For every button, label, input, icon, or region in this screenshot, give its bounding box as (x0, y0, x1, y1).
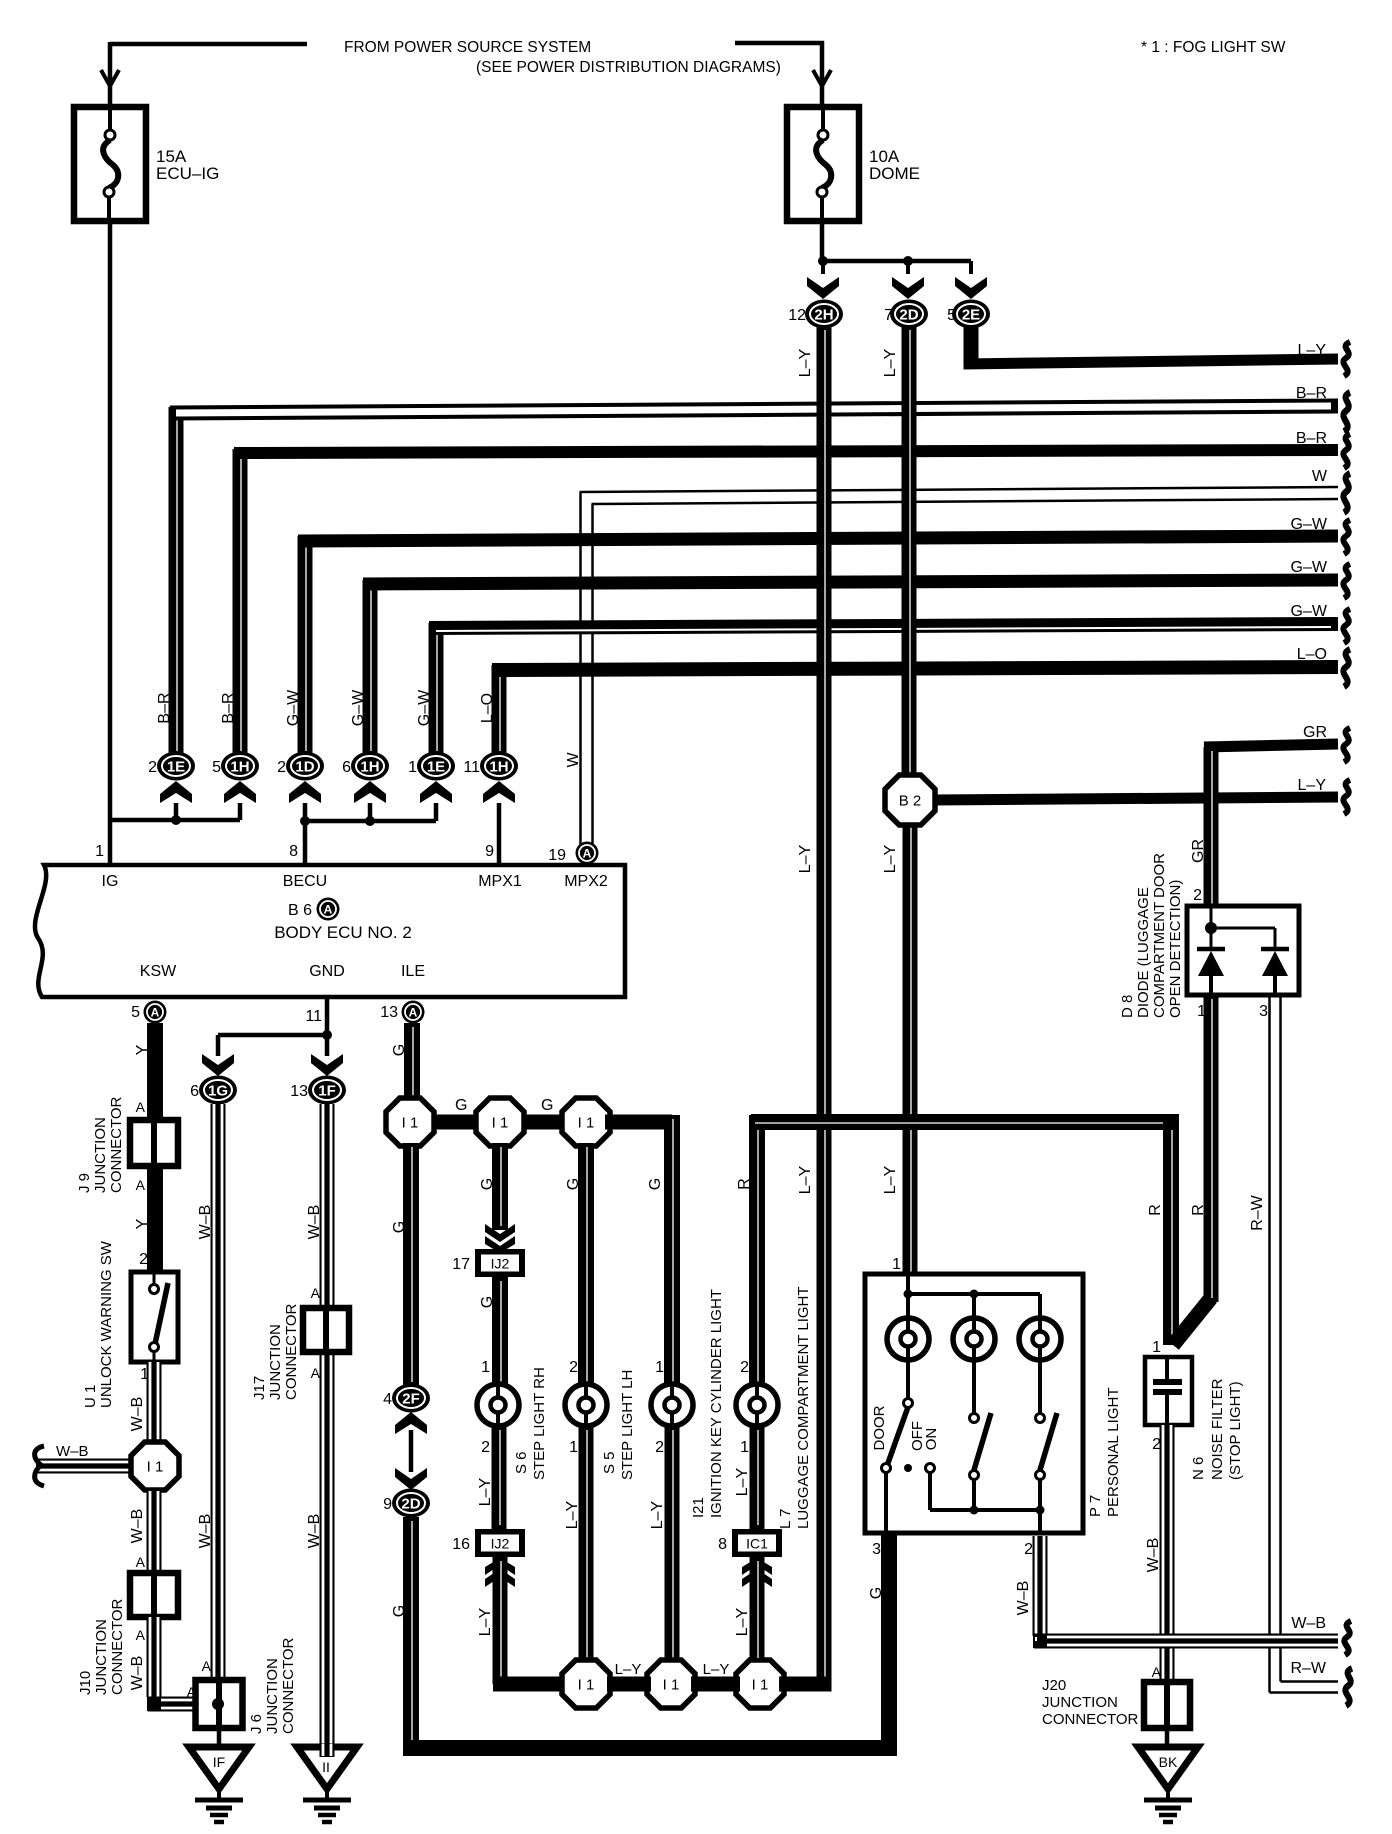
continuation W (1343, 473, 1350, 512)
svg-text:G: G (391, 1605, 408, 1617)
wire L-Y: IC1 to splice (750, 1557, 765, 1662)
svg-text:N 6: N 6 (1190, 1457, 1207, 1480)
ground IF (189, 1747, 249, 1822)
wire L-Y: corner to splice I1 (493, 1677, 566, 1692)
svg-text:1: 1 (408, 759, 417, 776)
svg-text:3: 3 (872, 1541, 881, 1558)
svg-text:19: 19 (548, 847, 566, 864)
svg-text:A: A (136, 1177, 146, 1193)
lamp personal light 3 (1019, 1318, 1061, 1360)
svg-text:L–Y: L–Y (615, 1661, 642, 1678)
wire: on contact to rail (928, 1472, 932, 1510)
wire: power feed to fuse DOME (735, 41, 824, 46)
connector 13 1F (308, 1076, 346, 1105)
wire G: splice to step light LH (578, 1143, 594, 1386)
connector A at KSW (144, 1001, 167, 1024)
wire: J6 to ground IF (217, 1728, 222, 1749)
wire G: 2D down to bottom run (403, 1517, 419, 1748)
junction (300, 816, 310, 826)
wire: DOME fuse output (820, 194, 825, 262)
svg-text:9: 9 (485, 843, 494, 860)
arrow into fuse ECU-IG (101, 70, 119, 86)
svg-text:L–O: L–O (1297, 646, 1327, 663)
svg-text:2: 2 (569, 1359, 578, 1376)
lamp S6 step light RH (477, 1384, 519, 1426)
arrow into junction 17 IJ2 (485, 1224, 515, 1253)
svg-text:5: 5 (131, 1004, 140, 1021)
svg-text:2: 2 (148, 759, 157, 776)
splice I1 (562, 1660, 610, 1708)
svg-text:11: 11 (463, 759, 480, 776)
svg-text:LUGGAGE COMPARTMENT LIGHT: LUGGAGE COMPARTMENT LIGHT (795, 1286, 812, 1529)
corner patch (147, 1697, 161, 1711)
connector 12 2H (805, 300, 843, 329)
wire W-B into ground II (320, 1744, 335, 1757)
wire W-B: I1 to J10 (147, 1491, 162, 1576)
svg-text:2F: 2F (402, 1391, 420, 1408)
svg-text:NOISE FILTER: NOISE FILTER (1209, 1378, 1226, 1480)
svg-text:L–Y: L–Y (797, 1165, 814, 1194)
svg-text:STEP LIGHT RH: STEP LIGHT RH (531, 1367, 548, 1480)
connector 1 1E (417, 752, 455, 781)
svg-text:ON: ON (923, 1428, 940, 1451)
wire W-B: noise filter to J20 (1160, 1425, 1175, 1684)
svg-text:ILE: ILE (401, 963, 425, 980)
svg-text:Y: Y (134, 1218, 151, 1229)
svg-text:A: A (136, 1554, 146, 1570)
svg-text:W–B: W–B (129, 1509, 146, 1544)
svg-text:A: A (136, 1099, 146, 1115)
continuation W-B (1344, 1621, 1351, 1655)
continuation G-W (1343, 520, 1350, 554)
connector 2 1D (286, 752, 324, 781)
wire: dome fuse branch line (823, 259, 971, 264)
wire W (hollow) from MPX2 to right edge (579, 492, 582, 848)
lamp S5 step light LH (565, 1384, 607, 1426)
svg-text:G–W: G–W (1291, 516, 1328, 533)
svg-text:I21: I21 (690, 1497, 707, 1518)
wire Y/A: KSW to unlock warning sw (147, 1023, 163, 1274)
svg-text:IC1: IC1 (746, 1536, 768, 1552)
svg-text:G: G (541, 1097, 553, 1114)
svg-text:1: 1 (740, 1439, 749, 1456)
svg-text:CONNECTOR: CONNECTOR (283, 1303, 300, 1400)
svg-text:16: 16 (452, 1536, 470, 1553)
svg-text:G: G (479, 1296, 496, 1308)
svg-text:L–Y: L–Y (797, 348, 814, 377)
junction connector 17 IJ2 (475, 1249, 525, 1277)
junction connector J10 (130, 1573, 178, 1617)
wire: door contact to pin 3 (884, 1472, 888, 1531)
junction (171, 815, 181, 825)
arrow into fuse DOME (813, 70, 831, 86)
svg-text:1E: 1E (167, 759, 185, 776)
svg-text:FROM POWER SOURCE SYSTEM: FROM POWER SOURCE SYSTEM (344, 39, 591, 56)
wire L-Y: splice link (607, 1677, 651, 1692)
fuse 15A ECU-IG (74, 107, 146, 221)
junction (365, 816, 375, 826)
continuation B-R (1343, 434, 1350, 468)
svg-text:G–W: G–W (1291, 603, 1328, 620)
wire L-Y: luggage light to IC1 (750, 1426, 765, 1529)
arrow into connector 4 2F (395, 1412, 427, 1434)
wire: 2F to 2D (409, 1430, 414, 1472)
lamp personal light 2 (953, 1318, 995, 1360)
svg-text:B 6: B 6 (288, 902, 312, 919)
svg-text:2: 2 (481, 1439, 490, 1456)
wire L-Y: corner into splice I1 (779, 1677, 832, 1692)
svg-text:W–B: W–B (306, 1205, 323, 1240)
wire L-Y: key light to splice (665, 1426, 680, 1663)
wire: J20 to ground BK (1165, 1728, 1170, 1749)
continuation L-Y (1343, 780, 1350, 814)
svg-text:KSW: KSW (140, 963, 177, 980)
svg-text:L–Y: L–Y (734, 1607, 751, 1636)
svg-text:W–B: W–B (129, 1397, 146, 1432)
svg-text:GND: GND (309, 963, 345, 980)
svg-text:IGNITION KEY CYLINDER LIGHT: IGNITION KEY CYLINDER LIGHT (708, 1289, 725, 1518)
svg-text:A: A (202, 1658, 212, 1674)
svg-text:2: 2 (740, 1359, 749, 1376)
junction (904, 1290, 913, 1299)
svg-text:1: 1 (1152, 1339, 1161, 1356)
svg-text:7: 7 (884, 307, 893, 324)
arrow into connector 6 1H (354, 781, 386, 803)
svg-text:2: 2 (277, 759, 286, 776)
svg-text:A: A (311, 1285, 321, 1301)
personal light P7 box (865, 1274, 1083, 1533)
svg-text:PERSONAL LIGHT: PERSONAL LIGHT (1105, 1388, 1122, 1517)
svg-text:IJ2: IJ2 (491, 1256, 510, 1272)
svg-text:L 7: L 7 (777, 1509, 794, 1529)
svg-text:DOOR: DOOR (871, 1405, 888, 1450)
svg-text:W–B: W–B (306, 1514, 323, 1549)
svg-text:A: A (1152, 1664, 1162, 1680)
svg-text:J20: J20 (1042, 1677, 1066, 1694)
continuation L-Y (1343, 342, 1350, 376)
svg-text:L–Y: L–Y (564, 1500, 581, 1529)
svg-text:P 7: P 7 (1087, 1495, 1104, 1517)
svg-text:G: G (565, 1178, 582, 1190)
continuation G-W (1343, 564, 1350, 598)
svg-text:2: 2 (1024, 1541, 1033, 1558)
connector A at ILE (402, 1001, 425, 1024)
arrow into connector 1 1E (420, 781, 452, 803)
svg-text:L–Y: L–Y (882, 348, 899, 377)
svg-text:1H: 1H (489, 759, 508, 776)
svg-text:IF: IF (213, 1754, 225, 1770)
connector 6 1G (199, 1076, 237, 1105)
arrow out of junction 8 IC1 (742, 1558, 772, 1587)
connector 2 1E (157, 752, 195, 781)
svg-text:L–Y: L–Y (703, 1661, 730, 1678)
svg-text:Y: Y (134, 1044, 151, 1055)
svg-text:G–W: G–W (350, 689, 367, 726)
svg-text:R–W: R–W (1290, 1660, 1326, 1677)
wire: power feed to fuse ECU-IG (110, 42, 307, 47)
svg-text:* 1 : FOG LIGHT SW: * 1 : FOG LIGHT SW (1141, 39, 1286, 56)
arrow into connector 13 1F (311, 1054, 343, 1076)
wire W-B: J10 down (147, 1617, 162, 1697)
svg-text:BODY ECU NO. 2: BODY ECU NO. 2 (274, 923, 412, 942)
svg-text:W–B: W–B (197, 1514, 214, 1549)
svg-text:1H: 1H (230, 759, 249, 776)
connector 9 2D (392, 1489, 430, 1518)
svg-text:5: 5 (212, 759, 221, 776)
connector 5 2E (952, 300, 990, 329)
junction connector 16 IJ2 (475, 1529, 525, 1557)
splice I1 (386, 1098, 434, 1146)
wire G-W bus 2 (363, 580, 378, 755)
svg-text:CONNECTOR: CONNECTOR (1042, 1711, 1139, 1728)
svg-text:JUNCTION: JUNCTION (93, 1619, 110, 1695)
wire G-W bus 3 (429, 623, 444, 755)
junction connector J20 (1144, 1682, 1190, 1728)
svg-text:A: A (324, 903, 333, 917)
svg-text:L–Y: L–Y (649, 1500, 666, 1529)
wire W-B from body ground (left continuation) (36, 1459, 133, 1474)
svg-text:13: 13 (380, 1004, 398, 1021)
svg-text:JUNCTION: JUNCTION (267, 1324, 284, 1400)
svg-text:GR: GR (1303, 724, 1327, 741)
junction (903, 256, 913, 266)
connector 11 1H (480, 752, 518, 781)
wire R: diagonal to noise filter (1173, 1298, 1211, 1345)
wire GR: right edge to diode pin 2 (1204, 744, 1338, 747)
svg-text:(SEE POWER DISTRIBUTION DIAGRA: (SEE POWER DISTRIBUTION DIAGRAMS) (476, 59, 781, 76)
junction (818, 256, 828, 266)
wire W-B: to right edge (1034, 1634, 1338, 1649)
svg-text:W–B: W–B (1291, 1615, 1326, 1632)
svg-text:2D: 2D (899, 307, 918, 324)
svg-text:DIODE (LUGGAGE: DIODE (LUGGAGE (1135, 887, 1152, 1018)
wire B-R bus 1 (hollow) (169, 407, 184, 755)
svg-text:G: G (868, 1587, 885, 1599)
wire L-Y: step light RH to IJ2 16 (492, 1426, 507, 1529)
wire L-Y: B2 to right edge (933, 797, 1338, 800)
svg-text:2H: 2H (814, 307, 833, 324)
wire R: down to noise filter (1163, 1122, 1179, 1345)
svg-text:BECU: BECU (283, 873, 327, 890)
svg-text:G–W: G–W (416, 689, 433, 726)
switch U1 unlock warning sw (131, 1272, 178, 1362)
svg-text:L–Y: L–Y (734, 1467, 751, 1496)
svg-text:1: 1 (481, 1359, 490, 1376)
svg-text:G: G (455, 1097, 467, 1114)
wire W-B: 1F to ground II (320, 1104, 335, 1749)
svg-text:1H: 1H (360, 759, 379, 776)
svg-text:R: R (1147, 1204, 1164, 1216)
svg-text:1: 1 (95, 843, 104, 860)
junction connector J17 (303, 1308, 349, 1352)
svg-text:JUNCTION: JUNCTION (92, 1117, 109, 1193)
svg-text:1F: 1F (318, 1083, 336, 1100)
svg-text:W–B: W–B (1015, 1581, 1032, 1616)
wire R-W: diode pin 3 (hollow) (1268, 995, 1271, 1693)
connector 4 2F (392, 1384, 430, 1413)
wire W-B: switch to I1 (147, 1362, 162, 1444)
svg-text:2: 2 (139, 1251, 148, 1268)
svg-text:17: 17 (452, 1256, 470, 1273)
svg-text:2: 2 (655, 1439, 664, 1456)
svg-text:II: II (322, 1759, 330, 1775)
arrow into connector 2 1D (289, 781, 321, 803)
switch 3 personal light (1038, 1360, 1042, 1413)
splice I1 (476, 1098, 524, 1146)
svg-text:6: 6 (342, 759, 351, 776)
svg-text:G: G (647, 1178, 664, 1190)
ground BK (1138, 1747, 1198, 1822)
lamp L7 luggage compartment light (736, 1384, 778, 1426)
arrow out of junction 16 IJ2 (485, 1558, 515, 1587)
svg-text:L–Y: L–Y (882, 844, 899, 873)
svg-text:CONNECTOR: CONNECTOR (280, 1637, 297, 1734)
continuation GR (1343, 728, 1350, 762)
svg-text:11: 11 (305, 1008, 322, 1025)
wire: ECU pin 8 junction line (303, 803, 308, 864)
wire: rail to pin 2 (1038, 1510, 1042, 1531)
svg-text:6: 6 (190, 1083, 199, 1100)
svg-text:12: 12 (788, 307, 806, 324)
svg-text:MPX1: MPX1 (478, 873, 522, 890)
svg-text:9: 9 (383, 1496, 392, 1513)
wire L-Y bus from connector 2E (964, 326, 979, 366)
arrow into connector 2H (807, 277, 839, 299)
wire R: key splice run (751, 1114, 1179, 1130)
wire: ECU pin 1 junction line (110, 818, 240, 823)
svg-text:IG: IG (102, 873, 119, 890)
wire L-O bus (492, 665, 507, 755)
splice I1 (131, 1442, 179, 1490)
svg-text:1: 1 (569, 1439, 578, 1456)
svg-text:W–B: W–B (56, 1443, 89, 1460)
svg-text:L–Y: L–Y (477, 1607, 494, 1636)
svg-text:L–Y: L–Y (882, 1165, 899, 1194)
svg-text:GR: GR (1190, 839, 1207, 863)
svg-text:B–R: B–R (1296, 385, 1327, 402)
wire L-Y: step light LH to splice (579, 1426, 594, 1663)
wire W-B: 1G to J6 (211, 1104, 226, 1682)
svg-text:1: 1 (892, 1256, 901, 1273)
svg-text:G–W: G–W (285, 689, 302, 726)
wire L-Y: connector 2D to splice B2 (902, 326, 917, 779)
svg-text:J17: J17 (251, 1376, 268, 1400)
svg-text:L–Y: L–Y (797, 844, 814, 873)
wire L-Y: splice B2 to personal light (903, 823, 918, 1276)
svg-text:(STOP LIGHT): (STOP LIGHT) (1227, 1381, 1244, 1480)
svg-text:OPEN DETECTION): OPEN DETECTION) (1167, 880, 1184, 1018)
svg-text:2D: 2D (401, 1496, 420, 1513)
junction (1036, 1506, 1045, 1515)
continuation curl left (35, 1446, 44, 1486)
wire R: luggage compartment light feed (749, 1115, 765, 1386)
svg-text:L–Y: L–Y (1298, 342, 1327, 359)
junction connector J6 (196, 1680, 243, 1728)
svg-text:DOME: DOME (869, 164, 920, 183)
svg-text:1E: 1E (427, 759, 445, 776)
svg-text:8: 8 (718, 1536, 727, 1553)
junction connector 8 IC1 (732, 1529, 782, 1557)
connector 6 1H (351, 752, 389, 781)
svg-text:I 1: I 1 (578, 1677, 595, 1694)
junction (970, 1290, 979, 1299)
junction connector J9 (130, 1120, 178, 1166)
wire: ECU pin 11 GND (325, 999, 330, 1035)
svg-text:B–R: B–R (1296, 430, 1327, 447)
svg-text:5: 5 (947, 307, 956, 324)
svg-text:I 1: I 1 (147, 1459, 164, 1476)
svg-text:L–Y: L–Y (1298, 777, 1327, 794)
wire G: up to personal light pin 3 (881, 1533, 897, 1748)
svg-text:MPX2: MPX2 (564, 873, 608, 890)
arrow into connector 5 1H (224, 781, 256, 803)
svg-text:W: W (1312, 468, 1328, 485)
svg-text:B–R: B–R (156, 692, 173, 723)
svg-text:2: 2 (1193, 887, 1202, 904)
svg-text:J 9: J 9 (76, 1173, 93, 1193)
svg-text:I 1: I 1 (402, 1115, 419, 1132)
wire B-R bus 2 (233, 449, 248, 755)
wire W-B: personal light pin 2 down (1033, 1536, 1048, 1636)
svg-text:1: 1 (655, 1359, 664, 1376)
svg-text:R: R (1190, 1204, 1207, 1216)
svg-text:STEP LIGHT LH: STEP LIGHT LH (619, 1370, 636, 1480)
wire G: bottom run to personal light pin 3 (404, 1740, 890, 1756)
junction (970, 1506, 979, 1515)
svg-text:R: R (736, 1178, 753, 1190)
svg-text:A: A (409, 1006, 418, 1020)
lamp I21 ignition key cylinder light (651, 1384, 693, 1426)
arrow into connector 2D (892, 277, 924, 299)
arrow into connector 2 1E (160, 781, 192, 803)
svg-text:3: 3 (1259, 1003, 1268, 1020)
ground II (297, 1747, 357, 1822)
junction (322, 1030, 332, 1040)
wires inside personal light (906, 1276, 910, 1318)
splice I1 (736, 1660, 784, 1708)
wire G: IJ2 to step light RH (492, 1277, 508, 1386)
connector 5 1H (221, 752, 259, 781)
wire L-Y: IJ2 to splice (493, 1557, 508, 1684)
ECU B6 BODY ECU NO. 2 (35, 865, 625, 997)
fuse 10A DOME (787, 107, 859, 221)
lamp personal light 1 (887, 1318, 929, 1360)
svg-text:13: 13 (290, 1083, 308, 1100)
svg-text:I 1: I 1 (752, 1677, 769, 1694)
junction inside J6 (212, 1698, 224, 1710)
svg-text:B 2: B 2 (899, 793, 922, 810)
wire L-Y: splice link (691, 1677, 740, 1692)
svg-text:I 1: I 1 (663, 1677, 680, 1694)
svg-text:J10: J10 (77, 1671, 94, 1695)
splice I1 (647, 1660, 695, 1708)
svg-text:8: 8 (289, 843, 298, 860)
svg-text:I 1: I 1 (578, 1115, 595, 1132)
svg-text:L–O: L–O (479, 693, 496, 723)
continuation G-W (1343, 609, 1350, 643)
svg-text:L–Y: L–Y (477, 1477, 494, 1506)
svg-text:U 1: U 1 (82, 1385, 99, 1408)
svg-text:COMPARTMENT DOOR: COMPARTMENT DOOR (1151, 853, 1168, 1018)
switch contacts personal light (906, 1360, 910, 1399)
arrow into connector 9 2D (395, 1468, 427, 1490)
continuation L-O (1343, 649, 1350, 686)
splice B2 (885, 775, 935, 825)
continuation R-W (1345, 1668, 1352, 1705)
svg-text:G–W: G–W (1291, 559, 1328, 576)
svg-text:UNLOCK WARNING SW: UNLOCK WARNING SW (98, 1240, 115, 1408)
svg-text:R–W: R–W (1249, 1194, 1266, 1230)
